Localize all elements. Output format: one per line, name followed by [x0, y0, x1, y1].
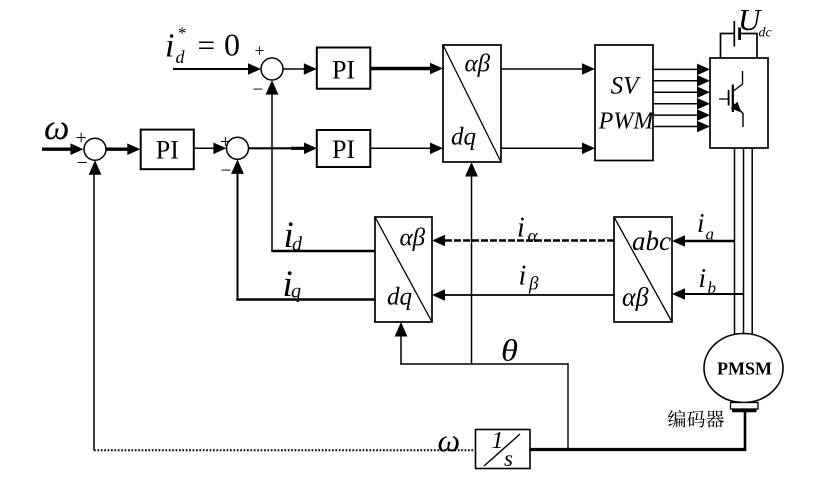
wire gate signal arrow 4 [653, 98, 710, 110]
node iq label [283, 264, 302, 305]
wire dc bus top left horizontal [720, 33, 734, 35]
wire i-alpha dashed arrow [432, 235, 614, 247]
wire gate signal arrow 6 [653, 121, 710, 133]
svg-text:d: d [176, 47, 186, 67]
wire id-ref to S3 arrow [173, 63, 261, 75]
svg-text:ω: ω [438, 422, 461, 458]
svg-text:dq: dq [451, 124, 476, 151]
block PI2 d-axis current regulator [317, 48, 371, 89]
node Udc label [738, 2, 773, 41]
wire S1 to PI1 arrow [106, 143, 140, 155]
wire PI1 to S2 arrow [194, 143, 227, 155]
node ib label [699, 263, 717, 298]
wire gate signal arrow 2 [653, 75, 710, 87]
svg-text:αβ: αβ [400, 225, 426, 252]
node id label [284, 215, 304, 256]
wire theta arrow into U2 [395, 322, 408, 365]
svg-text:0: 0 [224, 27, 240, 63]
summing junction S1 (speed error) [84, 138, 106, 160]
svg-text:s: s [504, 446, 513, 471]
svg-text:dq: dq [387, 284, 412, 311]
svg-text:d: d [292, 234, 303, 256]
block integrator 1/s [476, 428, 531, 471]
wire gate signal arrow 3 [653, 86, 710, 98]
svg-text:i: i [519, 261, 527, 292]
summing junction S3 (d-axis current error) [261, 58, 283, 80]
wire dc bus right vertical [756, 34, 758, 59]
wire U1 to SVPWM upper arrow [501, 63, 595, 75]
wire iq feedback horizontal [236, 298, 375, 301]
wire S3 to PI2 arrow [283, 63, 317, 75]
wire S2 to PI3 dashed arrow [249, 143, 317, 155]
block PI3 q-axis current regulator [317, 130, 371, 167]
svg-text:+: + [76, 127, 87, 149]
wire PI2 to dq-ab block thick arrow [370, 63, 443, 75]
svg-text:PI: PI [156, 136, 179, 165]
wire theta arrow into U1 [465, 162, 478, 364]
wire theta branch vertical [567, 363, 569, 449]
wire i-beta arrow [432, 289, 614, 301]
node encoder label (Chinese) [668, 410, 724, 428]
encoder body [731, 403, 759, 410]
svg-text:β: β [528, 274, 539, 295]
summing junction S2 (q-axis current error) [227, 137, 249, 159]
wire dc bus top right horizontal [740, 33, 758, 35]
svg-text:PI: PI [332, 56, 355, 85]
node id-ref label: i*_d = 0 [165, 24, 240, 68]
wire phase c line [751, 148, 753, 337]
wire id feedback vertical arrow into S3 [266, 80, 279, 252]
node i-alpha label [517, 213, 539, 248]
wire dc bus left vertical [720, 34, 722, 59]
svg-text:i: i [699, 263, 707, 293]
wire phase b line [743, 148, 745, 335]
svg-text:−: − [221, 161, 232, 182]
svg-text:SV: SV [611, 73, 642, 100]
wire omega feedback vertical arrow into S1 [89, 160, 102, 450]
wire iq feedback vertical arrow into S2 [231, 159, 244, 300]
svg-text:PI: PI [332, 135, 355, 164]
svg-text:αβ: αβ [465, 51, 491, 78]
wire U1 to SVPWM lower arrow [501, 143, 595, 155]
svg-text:+: + [220, 132, 231, 153]
motor PMSM [704, 334, 783, 403]
transistor Q1 IGBT symbol [719, 71, 743, 127]
wire omega reference input arrow [42, 143, 84, 155]
wire phase a line [734, 148, 736, 337]
svg-text:b: b [708, 279, 717, 298]
svg-text:dc: dc [759, 26, 773, 41]
wire encoder output down [744, 412, 747, 448]
node ia label [697, 208, 714, 244]
wire gate signal arrow 5 [653, 109, 710, 121]
wire omega feedback dotted horizontal [94, 449, 476, 451]
block inverter bridge [710, 58, 768, 148]
svg-text:θ: θ [501, 333, 518, 368]
svg-text:i: i [697, 208, 705, 238]
svg-text:−: − [253, 80, 264, 101]
wire ia tap arrow [672, 235, 735, 247]
svg-text:q: q [291, 281, 301, 303]
block U3 abc to alpha-beta Clarke transform [614, 217, 672, 322]
battery Udc long plate [733, 21, 735, 47]
svg-text:abc: abc [632, 226, 671, 256]
wire gate signal arrow 1 [653, 64, 710, 76]
svg-text:+: + [255, 41, 265, 61]
wire ib tap arrow [672, 288, 744, 300]
svg-text:PMSM: PMSM [717, 359, 772, 379]
node i-beta label [519, 261, 540, 295]
svg-text:=: = [198, 29, 216, 62]
battery Udc short plate [738, 28, 741, 41]
wire PI3 to dq-ab block arrow [370, 143, 443, 155]
encoder base bar [732, 409, 757, 412]
wire encoder output to integrator thick horizontal [530, 448, 747, 451]
block U1 dq to alpha-beta inverse Park transform [443, 45, 501, 162]
svg-text:αβ: αβ [622, 283, 649, 312]
wire theta horizontal [400, 363, 568, 365]
svg-text:α: α [528, 226, 539, 247]
svg-text:*: * [177, 24, 186, 43]
block U2 alpha-beta to dq Park transform [375, 217, 432, 322]
svg-text:a: a [706, 225, 715, 244]
wire id feedback horizontal [271, 250, 375, 253]
svg-text:i: i [517, 213, 525, 244]
svg-text:−: − [77, 152, 88, 174]
svg-text:i: i [165, 28, 174, 65]
svg-text:ω: ω [44, 107, 69, 147]
block SVPWM modulator [595, 45, 655, 161]
svg-text:PWM: PWM [598, 109, 656, 135]
block PI1 speed regulator [141, 130, 194, 170]
